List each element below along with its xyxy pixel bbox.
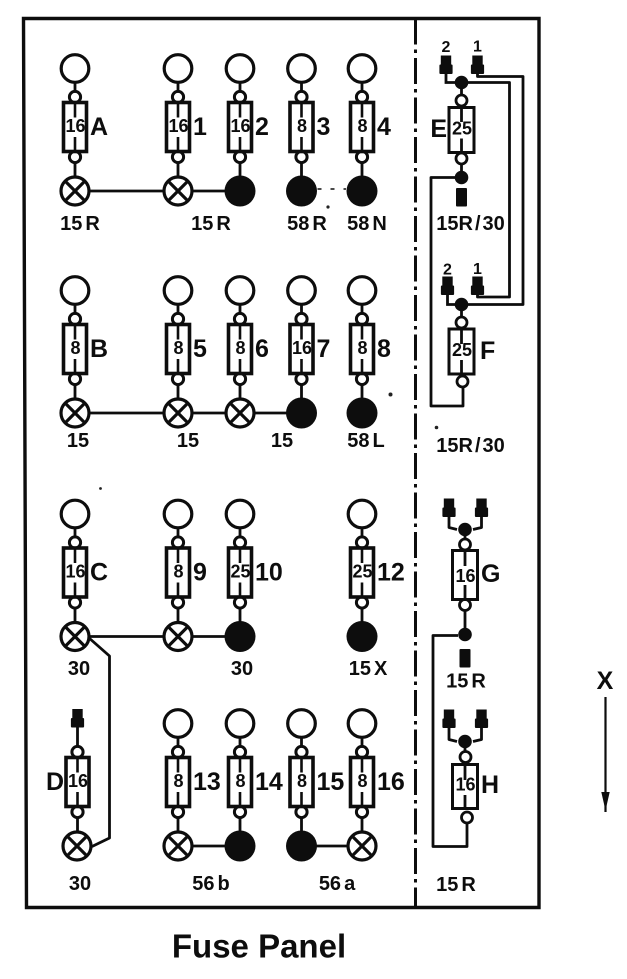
svg-text:13: 13 [193,768,221,796]
load symbol lamp 15 at 6 [226,399,293,452]
fuse 9 (8A) [164,500,207,622]
svg-text:56a: 56a [319,873,356,895]
load symbol terminal 58N at 4 [347,176,387,236]
svg-text:15: 15 [177,430,199,452]
wire 1 to 2 [192,190,225,193]
wire E junction to F terminal 1 [468,83,510,298]
load symbol terminal 30 at 10 [225,621,256,680]
svg-text:1: 1 [193,113,207,141]
svg-text:8: 8 [357,771,367,791]
svg-text:2: 2 [442,39,451,56]
svg-text:16: 16 [65,116,85,136]
load symbol lamp 30 at C [61,623,90,681]
fuse 8 (8A) [348,277,391,399]
wire 15 to 16 [317,845,349,848]
svg-text:E: E [430,115,447,143]
svg-text:58L: 58L [347,430,384,452]
svg-text:1: 1 [473,261,482,278]
svg-text:30: 30 [231,658,253,680]
dash-dot divider between panel sections [414,19,417,908]
wires H terminals to junction [449,726,457,742]
svg-text:2: 2 [255,113,269,141]
load symbol lamp at 16 [348,832,376,860]
svg-text:16: 16 [292,338,312,358]
svg-text:2: 2 [443,262,452,279]
svg-text:16: 16 [65,562,85,582]
svg-text:25: 25 [452,119,472,139]
svg-text:15: 15 [317,768,345,796]
wire terminal 2 to junction E [446,72,455,83]
fuse F (25A) [449,310,495,387]
wires G terminals to junction [449,515,457,530]
wire 15R bus G to H [433,636,467,847]
svg-text:15R/30: 15R/30 [436,435,505,457]
svg-text:58N: 58N [347,213,387,235]
svg-text:16: 16 [377,768,405,796]
fuse C (16A) [61,500,108,622]
svg-text:15R: 15R [436,874,476,896]
terminal 2 at fuse E [439,39,452,74]
svg-text:F: F [480,337,495,365]
terminal 1 at fuse F [471,261,484,295]
fuse 13 (8A) [164,710,221,832]
fuse B (8A) [61,277,108,399]
junction E bottom [455,171,469,185]
load symbol terminal 58R at 3 [286,176,327,236]
fuse A (16A) [61,55,108,177]
load symbol lamp at 13 [164,832,230,895]
load symbol terminal 58L at 8 [347,398,385,453]
svg-text:Fuse Panel: Fuse Panel [172,928,346,965]
fuse G (16A) [453,535,501,628]
svg-text:1: 1 [473,39,482,56]
svg-text:30: 30 [69,873,91,895]
wire A to 1 [89,190,164,193]
wire 5 to 6 [192,412,226,415]
junction E top [455,76,469,90]
load symbol lamp 15R at 1 [164,177,231,235]
svg-text:8: 8 [297,116,307,136]
junction H top [458,735,472,749]
wire 6 to 7 [254,412,287,415]
wire E terminal 1 to F junction [468,72,523,305]
svg-text:15X: 15X [349,658,388,680]
svg-text:58R: 58R [287,213,327,235]
load symbol lamp 15 at 5 [164,399,199,452]
fuse 3 (8A) [288,55,331,177]
fuse 10 (25A) [226,500,283,622]
wire terminal 2 to junction F [448,293,456,305]
terminal 1 at fuse E [471,39,484,75]
svg-text:8: 8 [357,338,367,358]
svg-text:8: 8 [70,338,80,358]
svg-text:8: 8 [235,771,245,791]
svg-text:16: 16 [455,775,475,795]
load symbol terminal dot at 2 [225,176,256,207]
terminal right at fuse G [475,499,488,518]
svg-text:9: 9 [193,559,207,587]
svg-text:25: 25 [452,340,472,360]
fuse 7 (16A) [288,277,331,399]
wire B to 5 [89,412,164,415]
fuse 1 (16A) [164,55,207,177]
terminal right at fuse H [475,710,488,729]
svg-text:3: 3 [317,113,331,141]
svg-text:7: 7 [317,335,331,363]
svg-text:16: 16 [168,116,188,136]
svg-text:15R/30: 15R/30 [436,213,505,235]
wire C to 9 [89,635,164,638]
svg-text:A: A [90,113,108,141]
load symbol terminal at 15 [286,831,356,896]
wire 15R/30 bus E to F [431,178,463,407]
load symbol terminal dot at 14 [225,831,256,862]
junction G bottom [458,628,472,642]
svg-text:15: 15 [67,430,89,452]
load symbol lamp 15R at A [60,177,100,235]
terminal 15R below G [446,649,486,693]
fuse 14 (8A) [226,710,283,832]
svg-text:5: 5 [193,335,207,363]
load symbol lamp at 9 [164,623,192,651]
fuse D (16A) [46,709,89,832]
terminal plug at fuse D top [71,709,84,728]
svg-text:D: D [46,768,64,796]
svg-text:G: G [481,560,500,588]
load symbol terminal dot at 7 [286,398,317,429]
svg-text:8: 8 [173,771,183,791]
svg-text:8: 8 [297,771,307,791]
fuse E (25A) [430,88,474,171]
svg-text:8: 8 [235,338,245,358]
svg-text:15: 15 [271,430,293,452]
fuse 12 (25A) [348,500,405,622]
fuse 16 (8A) [348,710,405,832]
svg-text:12: 12 [377,559,405,587]
svg-text:8: 8 [173,562,183,582]
svg-text:25: 25 [230,562,250,582]
svg-text:14: 14 [255,768,283,796]
junction G top [458,523,472,537]
svg-text:H: H [481,771,499,799]
svg-text:10: 10 [255,559,283,587]
svg-text:8: 8 [173,338,183,358]
svg-text:25: 25 [352,562,372,582]
fuse 15 (8A) [288,710,345,832]
svg-text:C: C [90,559,108,587]
svg-text:16: 16 [230,116,250,136]
arrow X direction [601,697,609,812]
wire 9 to 10 [192,635,225,638]
svg-text:16: 16 [68,771,88,791]
fuse 5 (8A) [164,277,207,399]
svg-text:8: 8 [377,335,391,363]
svg-text:6: 6 [255,335,269,363]
faint wire 3 to 4 [318,188,347,190]
load symbol lamp 30 at D [63,832,91,895]
svg-text:56b: 56b [192,873,229,895]
wire C to D load [89,638,110,847]
svg-text:B: B [90,335,108,363]
svg-text:8: 8 [357,116,367,136]
load symbol lamp 15 at B [61,399,89,452]
svg-text:X: X [597,667,614,695]
terminal left at fuse H [442,710,455,729]
fuse 2 (16A) [226,55,269,177]
wire 13 to 14 [192,845,225,848]
terminal 15R/30 below E [436,188,505,235]
svg-text:16: 16 [455,566,475,586]
fuse 6 (8A) [226,277,269,399]
fuse H (16A) [453,747,500,823]
terminal left at fuse G [442,499,455,518]
svg-text:15R: 15R [446,671,486,693]
svg-text:30: 30 [68,658,90,680]
fuse 4 (8A) [348,55,391,177]
svg-text:15R: 15R [60,213,100,235]
svg-text:15R: 15R [191,213,231,235]
junction F top [455,298,469,312]
load symbol terminal 15X at 12 [347,621,388,680]
svg-text:4: 4 [377,113,391,141]
terminal 2 at fuse F [441,262,454,296]
